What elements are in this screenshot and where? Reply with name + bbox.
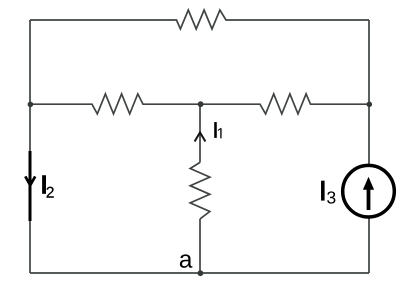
wire middle horizontal branch with two resistor zigzags bbox=[30, 94, 369, 114]
current arrow I2 thick segment on left wire bbox=[29, 151, 32, 221]
current arrow I1 chevron pointing up bbox=[195, 133, 206, 142]
label I2 bbox=[42, 175, 46, 194]
current arrow I2 chevron pointing down bbox=[25, 176, 35, 185]
node junction left-middle bbox=[28, 102, 34, 108]
current source I3 circle bbox=[343, 165, 395, 217]
wire right vertical bbox=[368, 20, 370, 273]
current source I3 arrow shaft bbox=[367, 188, 371, 211]
wire center branch upper segment bbox=[199, 104, 201, 162]
current source I3 arrow head bbox=[363, 177, 374, 190]
resistor center vertical branch bbox=[190, 162, 210, 219]
label node a bbox=[180, 254, 193, 267]
label I3 bbox=[321, 181, 325, 201]
wire left vertical bbox=[29, 20, 31, 273]
wire bottom horizontal bbox=[30, 272, 369, 274]
label I1 bbox=[214, 122, 217, 138]
node a junction dot bbox=[198, 270, 204, 276]
node junction center-middle bbox=[198, 101, 204, 107]
node junction right-middle bbox=[367, 102, 373, 108]
wire top branch with resistor zigzag bbox=[30, 10, 369, 29]
wire center branch lower segment bbox=[199, 219, 201, 273]
